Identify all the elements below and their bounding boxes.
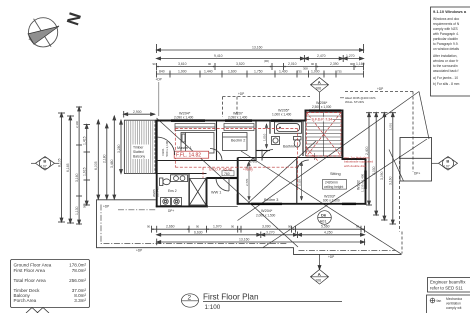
svg-text:DP+: DP+ xyxy=(414,172,420,176)
north arrow compass circle xyxy=(28,18,57,47)
svg-text:B: B xyxy=(43,159,46,164)
balcony width dimension 2900 xyxy=(124,113,155,115)
svg-text:requirements of N: requirements of N xyxy=(433,22,460,26)
svg-text:9,410: 9,410 xyxy=(214,54,223,58)
roof diagonal long down-left xyxy=(263,139,427,248)
svg-text:256.0m²: 256.0m² xyxy=(69,278,86,283)
eave dashed line above stairs with DP xyxy=(223,96,311,98)
svg-text:First Floor Area: First Floor Area xyxy=(14,268,46,273)
svg-text:1,135 x 2,400: 1,135 x 2,400 xyxy=(360,173,364,192)
svg-text:ceiling height: ceiling height xyxy=(324,185,343,189)
right vertical dimension line 3090 xyxy=(383,113,385,220)
svg-text:L07: L07 xyxy=(444,165,450,169)
top wall master-bath xyxy=(156,120,306,122)
door arc D201 balcony xyxy=(157,137,175,155)
svg-text:DB x400: DB x400 xyxy=(156,186,160,197)
wall bedrm2/bathrm xyxy=(255,121,257,161)
mechanical ventilation box xyxy=(427,295,470,313)
roof outline dashed vertical right xyxy=(412,92,414,173)
svg-text:DP+: DP+ xyxy=(168,209,174,213)
section marker B/L07 left xyxy=(31,157,59,171)
bottom mid wall bedrm3 xyxy=(237,203,297,205)
svg-text:2,140: 2,140 xyxy=(75,121,79,128)
svg-text:Engineer beam/fix: Engineer beam/fix xyxy=(430,279,466,284)
svg-text:90: 90 xyxy=(356,225,360,229)
interior vertical dim 2110 sitting xyxy=(300,162,302,200)
deck inner dash-dot DP outline xyxy=(101,205,396,251)
svg-text:6,630: 6,630 xyxy=(194,230,203,234)
svg-text:1,010: 1,010 xyxy=(263,133,267,141)
left vertical dimension chain 1615/1415/505 xyxy=(86,125,88,206)
top dimension line overall 13160 xyxy=(157,44,364,53)
bath tub xyxy=(275,122,302,134)
svg-text:1:100: 1:100 xyxy=(205,304,221,311)
svg-text:F.FL. 14.82: F.FL. 14.82 xyxy=(176,153,201,159)
window W204 bedrm3 glazing bar bottom xyxy=(251,203,282,205)
svg-text:+DP: +DP xyxy=(238,92,244,96)
svg-text:Slatted: Slatted xyxy=(133,150,144,154)
svg-text:2,010: 2,010 xyxy=(288,62,297,66)
window W204 glazing bar xyxy=(171,119,205,122)
bottom dimension overall 13160 xyxy=(157,239,365,246)
svg-text:90: 90 xyxy=(208,62,212,66)
stairwell top wall xyxy=(305,110,343,112)
svg-text:3,480: 3,480 xyxy=(110,159,114,168)
right projection box xyxy=(400,138,432,182)
svg-text:a) For jambs - 10: a) For jambs - 10 xyxy=(433,76,458,80)
left exterior wall xyxy=(156,120,158,208)
window label W206 xyxy=(312,101,332,109)
window W206 glazing bar xyxy=(309,109,341,111)
interior vertical dim 2770 bedrm3 xyxy=(248,162,250,200)
svg-text:1,970: 1,970 xyxy=(213,225,222,229)
svg-text:window or door fr: window or door fr xyxy=(433,59,459,63)
left vertical dimension chain 90/3160/1130/90 xyxy=(78,107,80,224)
interior walls xyxy=(157,121,342,206)
wall bath south xyxy=(269,121,271,134)
roof outline dashed vertical to DP line xyxy=(401,232,403,254)
deck outline lower left xyxy=(97,200,402,255)
wardrobe master xyxy=(175,124,215,131)
basin bathrm1 xyxy=(272,137,280,145)
svg-text:particular claddin: particular claddin xyxy=(433,37,458,41)
bedrm3 west exterior wall xyxy=(237,158,239,205)
stair flight xyxy=(306,113,342,161)
svg-text:1,600: 1,600 xyxy=(228,70,237,74)
wall bath/stair xyxy=(302,121,304,156)
eave dashed line top right with DP xyxy=(345,91,414,93)
roof outline dashed vertical lower right xyxy=(399,156,401,232)
svg-text:ventilation: ventilation xyxy=(446,302,461,306)
roof valley short diagonal bedrm3 xyxy=(247,141,316,204)
wall south of master/bedrm2 xyxy=(157,160,256,162)
svg-text:(90): (90) xyxy=(264,59,269,63)
step wall stair to sitting xyxy=(342,158,367,160)
roof hip short diagonal right box xyxy=(389,150,404,182)
right vertical dimension line 3160 xyxy=(392,113,394,224)
dash-dot eave line left of laundry xyxy=(118,209,156,211)
svg-text:90: 90 xyxy=(311,62,315,66)
red stair void outline dashed xyxy=(307,113,342,157)
svg-text:WALL STUDS: WALL STUDS xyxy=(345,100,364,104)
svg-text:1,615: 1,615 xyxy=(83,167,87,176)
interior vertical dim 1010 bath xyxy=(265,124,267,148)
svg-text:associated back f: associated back f xyxy=(433,69,459,73)
wall stair/sitting landing xyxy=(297,157,342,159)
svg-text:3,280: 3,280 xyxy=(117,144,121,153)
svg-text:1,440: 1,440 xyxy=(204,70,213,74)
svg-text:90: 90 xyxy=(153,62,157,66)
drawing title circle 2 xyxy=(182,294,199,307)
window WW1 glazing bar on porch wall xyxy=(230,177,237,179)
bottom dimension row 6630/3270/4250 xyxy=(157,232,365,239)
north arrow cross line steep xyxy=(34,19,52,47)
section marker B/L07 right xyxy=(432,157,458,171)
svg-text:2,500 x 1,000: 2,500 x 1,000 xyxy=(312,105,332,109)
roof diagonal over master xyxy=(157,118,299,247)
svg-text:Mechanica: Mechanica xyxy=(446,297,462,301)
door arc bathrm1 xyxy=(262,150,273,161)
gable apex right edge xyxy=(419,92,429,140)
wall ensuite north xyxy=(157,173,207,175)
svg-text:3,090: 3,090 xyxy=(262,225,271,229)
svg-text:106: 106 xyxy=(315,279,321,283)
svg-text:Bedrm 3: Bedrm 3 xyxy=(264,198,278,202)
door arc bedrm3 xyxy=(247,158,258,169)
left vertical dimension line 6165 xyxy=(69,116,71,223)
bedrm3 left exterior return xyxy=(237,194,239,204)
svg-text:3,160: 3,160 xyxy=(75,173,79,182)
red text S.F.D.P. 7.34 xyxy=(311,117,333,122)
svg-text:6,165: 6,165 xyxy=(66,163,70,172)
svg-text:First Floor Plan: First Floor Plan xyxy=(203,292,259,301)
svg-text:comply wit: comply wit xyxy=(446,306,461,310)
roof valley diagonal down-right xyxy=(241,151,402,254)
svg-text:600 x 2,000: 600 x 2,000 xyxy=(323,199,340,203)
svg-text:9.1.10 Windows a: 9.1.10 Windows a xyxy=(433,9,467,14)
roof ridge diagonal up-right to gable apex xyxy=(238,92,420,221)
svg-text:2: 2 xyxy=(188,295,192,302)
bottom wall sitting xyxy=(297,203,367,205)
svg-text:Total Floor Area: Total Floor Area xyxy=(14,278,47,283)
svg-text:840: 840 xyxy=(159,70,165,74)
svg-text:1,130: 1,130 xyxy=(75,206,79,215)
svg-text:to Paragraph 9.9.: to Paragraph 9.9. xyxy=(433,42,459,46)
red overlay ground floor outline dashed xyxy=(175,113,341,191)
bottom-left wall laundry xyxy=(156,205,208,207)
svg-text:3,270: 3,270 xyxy=(266,230,275,234)
stair top jog wall xyxy=(305,110,307,122)
window label W204 xyxy=(174,112,194,120)
left vertical dimension line 8105 xyxy=(61,113,63,222)
svg-text:13,160: 13,160 xyxy=(252,46,262,50)
svg-text:1,900: 1,900 xyxy=(178,70,187,74)
svg-text:Balcony: Balcony xyxy=(133,155,145,159)
svg-text:+Verify: +Verify xyxy=(243,168,253,172)
svg-text:3,520: 3,520 xyxy=(236,62,245,66)
svg-text:2,000 x 1,500: 2,000 x 1,500 xyxy=(256,213,276,217)
svg-text:1,001: 1,001 xyxy=(389,123,393,130)
svg-text:8,105: 8,105 xyxy=(57,158,61,167)
svg-text:fan: fan xyxy=(437,299,442,303)
wall sitting west xyxy=(296,158,298,204)
svg-text:L07: L07 xyxy=(41,165,47,169)
svg-text:Windows and doo: Windows and doo xyxy=(433,17,459,21)
svg-text:S.F.D.P. 7.34: S.F.D.P. 7.34 xyxy=(312,118,333,122)
exterior walls of first floor xyxy=(156,110,366,208)
window label W202 vertical xyxy=(357,173,365,192)
svg-text:b) For sills - 8 mm: b) For sills - 8 mm xyxy=(433,82,460,86)
window W205 glazing bar xyxy=(271,119,293,122)
stair right wall xyxy=(342,110,344,160)
svg-text:308: 308 xyxy=(303,66,308,70)
right vertical dimension line 2400 window xyxy=(368,113,370,205)
stair walk line arrow xyxy=(314,153,316,160)
north arrow cross line shallow xyxy=(29,26,59,40)
svg-text:After installation,: After installation, xyxy=(433,54,457,58)
svg-text:735: 735 xyxy=(297,70,302,74)
svg-text:5,560: 5,560 xyxy=(321,225,330,229)
svg-text:with Paragraph 4.: with Paragraph 4. xyxy=(433,32,459,36)
svg-text:D6: D6 xyxy=(321,212,327,217)
svg-text:2,660: 2,660 xyxy=(166,225,175,229)
top dimension line row interior 90/3610/90/3520/2010/90/2390/90/1160 xyxy=(157,63,364,70)
svg-text:2,470: 2,470 xyxy=(317,54,326,58)
section marker A/106 bottom xyxy=(311,255,329,285)
fan symbol xyxy=(430,298,435,303)
wall studs note xyxy=(345,96,376,104)
top dimension line row openings 840/1900/1440/1600/1750/1400/735/1000/735 xyxy=(157,71,364,78)
area schedule table xyxy=(11,260,90,308)
svg-text:90: 90 xyxy=(231,225,235,229)
svg-text:with double disk.: with double disk. xyxy=(344,164,367,168)
bush symbol below table xyxy=(26,308,49,313)
bed master xyxy=(181,133,214,154)
svg-text:on window details: on window details xyxy=(433,47,459,51)
top dimension line row 9410 / 2470 / 1270 xyxy=(157,55,364,62)
wardrobe bedrm2 xyxy=(224,124,254,131)
window label W207 xyxy=(228,112,248,120)
svg-text:2,110: 2,110 xyxy=(298,179,302,186)
svg-text:3.3m²: 3.3m² xyxy=(74,298,86,303)
svg-text:2,770: 2,770 xyxy=(245,178,249,186)
svg-text:Porch Area: Porch Area xyxy=(14,298,37,303)
stair stringer centre line xyxy=(323,113,325,157)
door arc master from corridor xyxy=(210,149,222,161)
svg-text:106: 106 xyxy=(315,87,321,91)
svg-text:505: 505 xyxy=(83,203,87,208)
svg-text:3,090: 3,090 xyxy=(380,171,384,180)
svg-text:refer to SED S11: refer to SED S11 xyxy=(430,285,463,290)
left vertical dimension 2180 xyxy=(106,124,108,199)
window W203 glazing bar bottom xyxy=(342,203,356,205)
svg-text:A01: A01 xyxy=(320,218,328,223)
wall ensuite/shower xyxy=(188,174,190,207)
svg-text:90: 90 xyxy=(288,225,292,229)
left vertical dimension 6005 xyxy=(97,120,99,199)
svg-text:+DP: +DP xyxy=(156,78,162,82)
svg-text:13,160: 13,160 xyxy=(239,238,249,242)
svg-text:comply with NZS: comply with NZS xyxy=(433,27,459,31)
svg-text:3,160: 3,160 xyxy=(389,176,393,185)
svg-text:2,390: 2,390 xyxy=(330,62,339,66)
svg-text:2,400: 2,400 xyxy=(365,146,369,155)
svg-text:78.0m²: 78.0m² xyxy=(72,268,87,273)
svg-text:2,090 x 1,400: 2,090 x 1,400 xyxy=(228,115,248,119)
porch north wall ww1 xyxy=(207,177,238,179)
porch deck edge line xyxy=(207,205,238,207)
window label W205 xyxy=(272,109,292,117)
ensuite toilet xyxy=(160,178,171,186)
svg-text:+DP: +DP xyxy=(377,87,383,91)
laundry/ww1 wall vertical xyxy=(206,178,208,207)
svg-text:+DP: +DP xyxy=(328,255,334,259)
detail marker D6/A01 xyxy=(318,211,332,225)
svg-text:1,160: 1,160 xyxy=(356,62,365,66)
svg-text:to the surroundin: to the surroundin xyxy=(433,64,458,68)
svg-text:1,400: 1,400 xyxy=(279,70,288,74)
door arc sitting xyxy=(297,160,309,172)
notes box 9.1.10 windows and doors (top right, cut off) xyxy=(431,7,470,96)
svg-text:3,610: 3,610 xyxy=(178,62,187,66)
timber slatted balcony hatched xyxy=(124,120,155,173)
svg-text:2,090 x 1,400: 2,090 x 1,400 xyxy=(174,115,194,119)
ensuite vanity xyxy=(171,175,188,182)
laundry washer boxes xyxy=(161,198,182,206)
toilet bathrm1 xyxy=(294,137,302,148)
balcony edge dashed xyxy=(154,120,156,173)
drawing title underline xyxy=(203,301,342,303)
bottom dimension row rooms xyxy=(152,226,365,233)
wall bathroom south xyxy=(256,150,270,152)
svg-text:4,250: 4,250 xyxy=(324,230,333,234)
svg-text:+DP: +DP xyxy=(103,205,109,209)
right vertical dimension line 3030 xyxy=(375,113,377,215)
svg-text:90: 90 xyxy=(350,62,354,66)
svg-text:90: 90 xyxy=(196,225,200,229)
shower void crossed box xyxy=(190,179,207,206)
wall bedrm3 north xyxy=(238,157,297,159)
svg-text:Sitting: Sitting xyxy=(330,172,341,176)
svg-text:2,180: 2,180 xyxy=(103,154,107,163)
engineer note box xyxy=(428,278,470,293)
svg-text:1,270: 1,270 xyxy=(346,54,355,58)
svg-text:2,900: 2,900 xyxy=(133,110,142,114)
svg-text:500 x 2,100: 500 x 2,100 xyxy=(165,140,169,156)
svg-text:1,750: 1,750 xyxy=(254,70,263,74)
balcony vertical dimension 3280 xyxy=(120,120,122,173)
svg-text:WW 1: WW 1 xyxy=(211,190,221,194)
svg-text:Master 1: Master 1 xyxy=(177,146,192,150)
window W202 glazing bar vertical xyxy=(364,171,366,190)
svg-text:90: 90 xyxy=(147,225,151,229)
svg-text:B: B xyxy=(446,159,449,164)
wall master/bedrm2 xyxy=(216,121,218,161)
left vertical dimension 3480 near balcony xyxy=(113,116,115,199)
window label W203 xyxy=(323,194,340,202)
svg-text:Ens 2: Ens 2 xyxy=(168,189,177,193)
svg-text:Timber: Timber xyxy=(133,146,144,150)
red level box F.FL. 14.82 xyxy=(174,151,209,158)
north arrow grey wedge pointer xyxy=(28,26,59,44)
svg-text:6,005: 6,005 xyxy=(94,161,98,170)
door label D201 vertical xyxy=(161,140,169,156)
bed bedrm2 xyxy=(223,133,248,151)
section marker A/106 top xyxy=(311,78,329,111)
svg-text:760: 760 xyxy=(224,172,230,176)
svg-text:1,000 x 1,400: 1,000 x 1,400 xyxy=(272,112,292,116)
window label W204 bedrm3 xyxy=(256,209,276,217)
red note glass balustrade xyxy=(344,155,373,167)
svg-text:735: 735 xyxy=(337,70,342,74)
svg-text:+DP: +DP xyxy=(136,248,142,252)
window W207 glazing bar xyxy=(225,119,252,122)
door arc porch 760 xyxy=(216,178,229,191)
svg-text:1,000: 1,000 xyxy=(311,70,320,74)
right wall sitting xyxy=(365,159,367,205)
svg-text:Bedrm 2: Bedrm 2 xyxy=(231,138,245,142)
ceiling height note box xyxy=(323,180,347,190)
svg-text:1,415: 1,415 xyxy=(83,136,87,145)
